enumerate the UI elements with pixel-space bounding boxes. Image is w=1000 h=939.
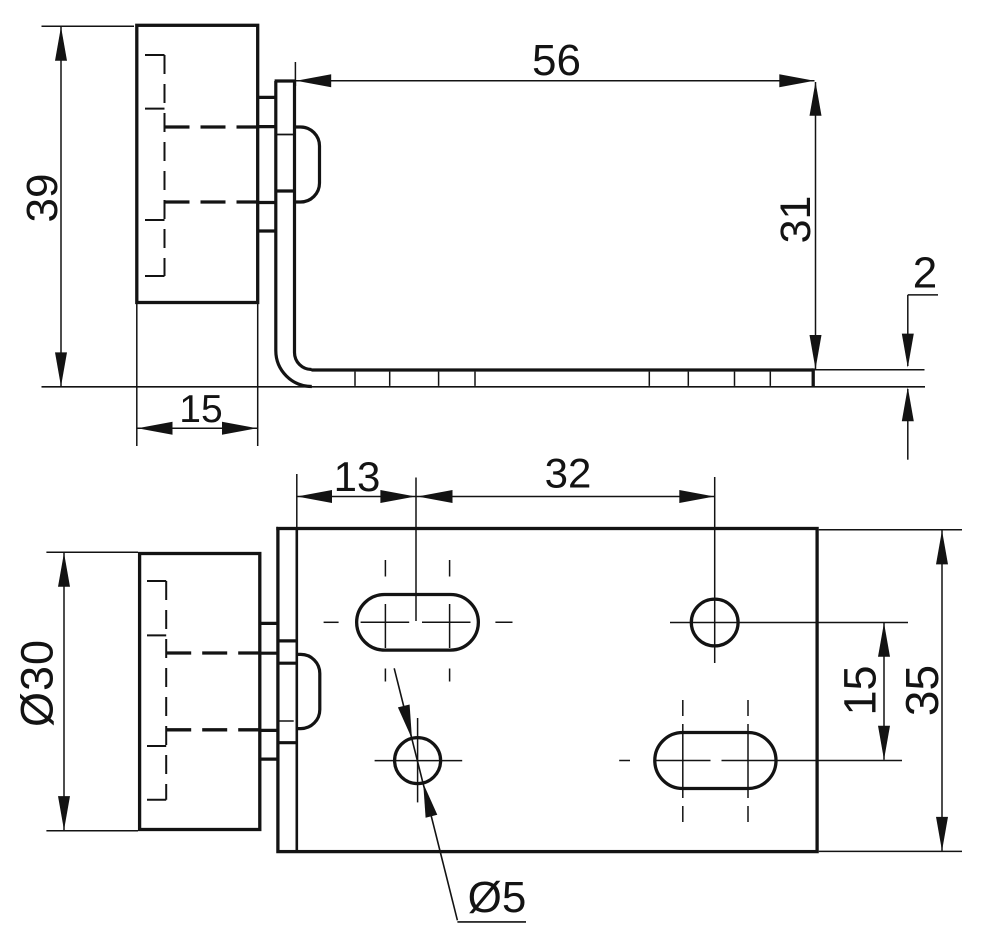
- upper slot horizontal centerline dash c: [422, 621, 471, 623]
- buffer mounting tab lower top edge: [258, 201, 277, 204]
- dim 32 dimension line: [416, 496, 715, 498]
- svg-text:31: 31: [772, 196, 820, 244]
- round hole upper right horizontal centerline: [670, 622, 908, 624]
- svg-text:39: 39: [18, 174, 67, 223]
- plate segment tick 4: [474, 372, 476, 386]
- dim 2 upper leader line: [907, 295, 909, 366]
- slot hole lower right: [655, 733, 776, 789]
- dim dia30 arrow down: [58, 796, 70, 830]
- buffer side view hidden vertical dashed line: [164, 55, 166, 276]
- dim 15 side view arrow left: [138, 422, 173, 435]
- baseline and plate bottom edge long thin line: [42, 386, 926, 388]
- dim 35 arrow down: [936, 817, 948, 851]
- plan view leg inner line 3: [278, 741, 297, 744]
- dim dia5 upper arrow: [398, 705, 412, 739]
- buffer plan view inner tick line 2: [147, 634, 166, 636]
- plan view tab upper top edge: [260, 622, 278, 625]
- svg-text:15: 15: [835, 665, 886, 715]
- plan view tab upper bottom edge: [260, 652, 278, 655]
- dim 2 arrow down: [902, 334, 914, 368]
- svg-text:13: 13: [334, 453, 381, 500]
- dim 35 dimension line: [941, 530, 943, 851]
- dimple bump plan view: [297, 654, 320, 728]
- dim 31 dimension line: [815, 82, 817, 369]
- plate segment tick 1: [354, 372, 356, 386]
- bend line in plan view: [295, 529, 298, 852]
- buffer body side view outline: [137, 25, 258, 302]
- dim 32 arrow right: [679, 490, 714, 503]
- dim 31 arrow down: [810, 335, 822, 369]
- dim 15 plan view dimension line: [883, 623, 885, 760]
- plan view leg inner line 1: [278, 639, 297, 642]
- dim dia30 dimension line: [63, 553, 65, 830]
- dim dia5 leader line: [394, 668, 457, 920]
- plate segment tick 8: [769, 372, 771, 386]
- svg-text:Ø5: Ø5: [468, 873, 527, 922]
- dim 13 extension line: [296, 474, 298, 527]
- horizontal plate top edge: [312, 368, 814, 371]
- dim 31 arrow up: [810, 82, 822, 116]
- lower slot right vertical centerline: [747, 700, 749, 822]
- bracket vertical leg inner edge with bend: [295, 81, 312, 370]
- dim 2 text shelf line: [908, 294, 938, 296]
- dim 56 arrow left: [296, 74, 331, 87]
- dim 35 arrow up: [936, 530, 948, 564]
- plan view leg thin inner line: [278, 720, 294, 722]
- svg-text:32: 32: [545, 450, 592, 497]
- dim 13 arrow left: [297, 490, 332, 503]
- svg-text:15: 15: [179, 388, 222, 431]
- buffer side view inner tick line 3: [145, 219, 165, 221]
- dim 2 arrow up: [902, 387, 914, 421]
- round hole lower left horizontal centerline: [375, 760, 463, 762]
- buffer side view inner tick line 1: [145, 54, 165, 56]
- plate plan view top edge left stub: [276, 527, 278, 530]
- dim 39 top extension line: [42, 25, 135, 27]
- dimple bump side view: [295, 127, 320, 202]
- dim 56 arrow right: [779, 74, 814, 87]
- dim dia30 top extension line: [46, 551, 138, 553]
- dim 15 side view left extension line: [136, 304, 138, 446]
- buffer mounting tab upper top edge: [258, 96, 277, 99]
- upper slot center extension line: [415, 478, 417, 622]
- plan view tab lower top edge: [260, 729, 278, 732]
- lower slot horizontal centerline dash c: [722, 760, 903, 762]
- buffer body plan view outline: [140, 554, 260, 830]
- dim 13 arrow right: [380, 490, 415, 503]
- horizontal plate right end edge: [812, 368, 815, 386]
- dim 2 lower leader line: [907, 389, 909, 460]
- slot hole upper left: [357, 595, 479, 651]
- dim dia30 bottom extension line: [46, 830, 138, 832]
- lower slot horizontal centerline dash a: [619, 760, 630, 762]
- lower slot horizontal centerline dash b: [656, 760, 711, 762]
- plate plan view outline: [278, 529, 817, 852]
- dim 35 bottom extension line: [819, 850, 962, 852]
- upper slot horizontal centerline dash d: [495, 621, 512, 623]
- dim 15 side view right extension line: [257, 304, 259, 446]
- buffer mounting tab upper bottom edge: [258, 125, 277, 128]
- plan view tab lower bottom edge: [260, 757, 278, 760]
- dim 35 top extension line: [819, 529, 962, 531]
- upper slot left vertical centerline: [384, 560, 386, 682]
- upper slot right vertical centerline: [449, 560, 451, 682]
- plate segment tick 3: [438, 372, 440, 386]
- buffer mounting tab lower bottom edge: [258, 229, 277, 232]
- buffer plan view inner tick line 1: [147, 580, 166, 582]
- svg-text:Ø30: Ø30: [12, 639, 63, 727]
- buffer plan view hidden dashed line lower: [166, 728, 260, 731]
- round hole lower left: [395, 738, 441, 784]
- dim dia5 text shelf line: [457, 921, 526, 923]
- buffer side view hidden dashed line lower: [165, 200, 258, 203]
- dim dia30 arrow up: [58, 553, 70, 587]
- plan view leg inner line 2: [278, 662, 297, 665]
- plate segment tick 2: [389, 372, 391, 386]
- lower slot left vertical centerline: [682, 700, 684, 822]
- bracket vertical leg outer edge with bend: [276, 81, 312, 387]
- vertical leg thin inner line: [276, 134, 294, 136]
- svg-text:56: 56: [532, 36, 581, 85]
- buffer side view inner tick line 4: [145, 275, 165, 277]
- buffer side view hidden dashed line upper: [165, 125, 258, 128]
- buffer plan view hidden vertical dashed line: [165, 581, 167, 800]
- dim 15 side view arrow right: [222, 422, 257, 435]
- buffer plan view hidden dashed line upper: [166, 651, 260, 654]
- dim 56 left extension line: [294, 62, 296, 86]
- dim 39 dimension line: [60, 27, 62, 386]
- plate segment tick 6: [687, 372, 689, 386]
- buffer plan view inner tick line 3: [147, 745, 166, 747]
- buffer side view inner tick line 2: [145, 108, 165, 110]
- dim 56 dimension line: [296, 80, 815, 82]
- upper slot horizontal centerline dash b: [361, 621, 410, 623]
- buffer plan view inner tick line 4: [147, 799, 166, 801]
- upper slot horizontal centerline dash a: [324, 621, 339, 623]
- bracket vertical leg top edge: [275, 79, 296, 82]
- vertical leg thick inner line: [276, 189, 294, 192]
- dim 39 arrow up: [55, 27, 67, 61]
- plate segment tick 7: [734, 372, 736, 386]
- dim 13 dimension line: [297, 496, 416, 498]
- dim 15 plan view arrow down: [878, 726, 890, 760]
- dim 32 arrow left: [418, 490, 453, 503]
- round hole upper right: [691, 599, 738, 646]
- dim 15 side view dimension line: [137, 427, 258, 429]
- svg-text:35: 35: [896, 665, 948, 716]
- round hole lower left vertical centerline: [417, 718, 419, 802]
- dim dia5 lower arrow: [423, 783, 437, 817]
- dim 15 plan view arrow up: [878, 623, 890, 657]
- plate top edge thin extension to right: [813, 369, 924, 371]
- dim 39 arrow down: [55, 352, 67, 386]
- plate segment tick 5: [648, 372, 650, 386]
- svg-text:2: 2: [913, 249, 937, 298]
- round hole upper right vertical centerline: [714, 477, 716, 663]
